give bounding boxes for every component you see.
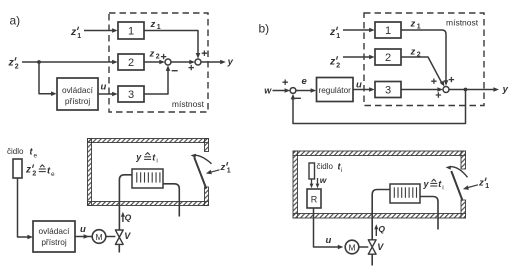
- wire sensor to control device (a): [18, 178, 29, 237]
- output wire y (a): [201, 61, 222, 63]
- block 2 (b): [375, 49, 401, 65]
- pointer from z'1 to window (b): [466, 185, 478, 188]
- junction dot on output (b): [464, 88, 468, 92]
- radiator supply pipe (a): [119, 175, 132, 230]
- air flow curve through window (a): [194, 155, 211, 164]
- svg-text:y: y: [423, 179, 430, 189]
- output wire y (b): [449, 89, 494, 91]
- radiator (b): [390, 184, 420, 203]
- svg-text:z: z: [150, 19, 156, 30]
- svg-text:a): a): [10, 14, 21, 28]
- svg-text:z: z: [410, 19, 416, 30]
- outdoor sensor (a): [13, 159, 22, 178]
- block regulátor (b): [317, 78, 354, 102]
- radiator return pipe (b): [420, 197, 438, 230]
- svg-text:i: i: [442, 184, 443, 191]
- minus sign at sum node 1 (a): [172, 70, 178, 72]
- svg-text:2: 2: [156, 53, 160, 60]
- pipe below valve (a): [118, 244, 120, 252]
- room wall right upper (a): [205, 139, 209, 152]
- feedback wire from output to comparator (b): [293, 90, 466, 124]
- block 3 (b): [375, 82, 401, 98]
- svg-text:w: w: [264, 86, 272, 96]
- svg-text:V: V: [124, 231, 131, 241]
- room wall bottom (b): [293, 214, 466, 219]
- motor M (b): [345, 240, 359, 254]
- svg-text:e: e: [34, 152, 38, 159]
- svg-text:e: e: [51, 171, 55, 178]
- plus sign at sum node 1 (a): [161, 54, 166, 59]
- svg-text:u: u: [101, 82, 107, 93]
- room wall bottom (a): [88, 202, 209, 206]
- svg-text:1: 1: [385, 25, 391, 37]
- wire e into regulator (b): [296, 90, 313, 92]
- room sensor (b): [309, 163, 315, 179]
- sum node 1 (a): [165, 59, 171, 65]
- sum node 2 (a): [195, 59, 201, 65]
- wire z'1 into block 1 (b): [343, 29, 371, 31]
- svg-text:ovládací: ovládací: [39, 226, 71, 236]
- plus sign below block 3 wire (b): [436, 92, 441, 97]
- svg-text:čidlo: čidlo: [317, 162, 334, 171]
- minus sign at comparator (b): [295, 97, 301, 99]
- svg-text:y: y: [135, 152, 142, 162]
- wire block 2 output into sum node 1 (a): [144, 61, 161, 63]
- wire u to motor (a): [75, 236, 92, 238]
- wire u from R to motor (b): [314, 208, 342, 247]
- svg-text:ovládací: ovládací: [62, 85, 94, 95]
- svg-text:M: M: [95, 232, 102, 242]
- room wall left (a): [88, 139, 92, 206]
- svg-text:místnost: místnost: [446, 18, 479, 28]
- svg-text:R: R: [311, 195, 318, 205]
- block ovládací přístroj (physical) (a): [33, 221, 75, 252]
- block ovládací přístroj (a): [57, 78, 98, 110]
- radiator (a): [132, 169, 163, 188]
- svg-text:1: 1: [128, 26, 134, 38]
- svg-text:z: z: [8, 57, 15, 69]
- radiator return pipe (a): [163, 184, 179, 217]
- wire u into block 3 (b): [353, 89, 371, 91]
- plus sign at comparator (b): [283, 80, 288, 85]
- svg-text:i: i: [341, 167, 342, 174]
- svg-text:i: i: [156, 158, 157, 165]
- motor M (a): [92, 230, 106, 244]
- svg-text:z: z: [25, 165, 31, 176]
- svg-text:z: z: [329, 26, 336, 38]
- wire w into comparator (b): [273, 90, 287, 92]
- open window sash (a): [194, 157, 206, 188]
- wire block 3 output up into sum node 1 (a): [144, 70, 168, 94]
- radiator supply pipe (b): [372, 190, 390, 240]
- svg-text:y: y: [227, 57, 234, 68]
- wire sum node 1 to sum node 2 (a): [171, 61, 191, 63]
- svg-text:2: 2: [15, 63, 19, 70]
- junction dot on z'2 wire (a): [37, 60, 41, 64]
- regulator R (b): [307, 189, 321, 208]
- svg-text:1: 1: [485, 183, 489, 190]
- valve V (a): [115, 230, 123, 244]
- svg-text:y: y: [502, 84, 509, 95]
- svg-text:Q: Q: [125, 213, 132, 223]
- svg-text:2: 2: [128, 57, 134, 69]
- room wall right lower (a): [205, 187, 209, 206]
- svg-text:z: z: [410, 47, 416, 58]
- wire sensor into regulator R (b): [311, 179, 313, 185]
- plus sign lower left at sum node 2 (a): [189, 65, 194, 70]
- link motor to valve (a): [106, 236, 116, 238]
- sum node (b): [443, 87, 449, 93]
- block 1 (b): [375, 22, 401, 38]
- svg-text:2: 2: [32, 170, 36, 177]
- svg-text:V: V: [377, 242, 384, 252]
- svg-text:regulátor: regulátor: [319, 86, 352, 95]
- block 2 (a): [118, 54, 144, 70]
- svg-text:u: u: [80, 224, 86, 235]
- room wall top (b): [293, 151, 466, 156]
- svg-text:3: 3: [128, 89, 134, 101]
- svg-text:čidlo: čidlo: [7, 147, 24, 156]
- open window sash (b): [451, 171, 462, 200]
- wire w setpoint into regulator R (b): [317, 178, 319, 185]
- wire z1 from block 1 to sum node (a): [144, 31, 198, 55]
- valve V (b): [368, 240, 376, 254]
- wire z1 from block 1 down into sum node (b): [401, 30, 446, 81]
- wire block 3 output into sum node (b): [401, 89, 439, 91]
- pipe below valve (b): [371, 254, 373, 265]
- room wall left (b): [293, 151, 298, 218]
- pointer from z'1 to window (a): [209, 170, 219, 173]
- room wall top (a): [88, 139, 209, 143]
- wire branch from z'2 to control device (a): [39, 62, 52, 94]
- wire u into block 3 (a): [98, 93, 114, 95]
- svg-text:přístroj: přístroj: [41, 237, 67, 247]
- plus sign upper right at sum node 2 (a): [202, 51, 207, 56]
- svg-text:z: z: [220, 162, 226, 173]
- plus sign right of z1 arrow (b): [449, 77, 454, 82]
- block 3 (a): [118, 86, 144, 102]
- dashed boundary 'místnost' (a): [109, 13, 208, 112]
- svg-text:z: z: [478, 178, 484, 189]
- svg-text:1: 1: [77, 33, 81, 40]
- comparator node (b): [290, 88, 296, 94]
- svg-text:2: 2: [385, 52, 391, 64]
- svg-text:přístroj: přístroj: [65, 96, 91, 106]
- flow arrow Q (b): [375, 227, 377, 236]
- plus sign left of z1 arrow (b): [431, 79, 436, 84]
- wire z'2 into block 2 (a): [22, 61, 114, 63]
- svg-text:1: 1: [227, 168, 231, 175]
- svg-text:z: z: [70, 26, 77, 38]
- svg-text:z: z: [329, 56, 336, 68]
- svg-text:e: e: [302, 76, 308, 87]
- svg-text:M: M: [348, 242, 355, 252]
- room wall right upper (b): [461, 151, 466, 169]
- block 1 (a): [118, 22, 144, 39]
- dashed boundary 'místnost' (b): [364, 13, 484, 106]
- air flow curve through window (b): [450, 167, 468, 178]
- svg-text:2: 2: [336, 62, 340, 69]
- flow arrow Q (a): [122, 215, 124, 223]
- wire z2 diagonal into sum node (b): [401, 57, 442, 83]
- svg-text:místnost: místnost: [172, 99, 205, 109]
- svg-text:u: u: [326, 235, 332, 246]
- svg-text:z: z: [149, 49, 155, 60]
- svg-text:Q: Q: [378, 224, 385, 234]
- wire z'1 into block 1 (a): [84, 30, 114, 32]
- svg-text:1: 1: [336, 33, 340, 40]
- link motor to valve (b): [359, 246, 369, 248]
- svg-text:3: 3: [385, 85, 391, 97]
- room wall right lower (b): [461, 200, 466, 218]
- svg-text:b): b): [259, 21, 270, 35]
- wire z'2 into block 2 (b): [343, 56, 371, 58]
